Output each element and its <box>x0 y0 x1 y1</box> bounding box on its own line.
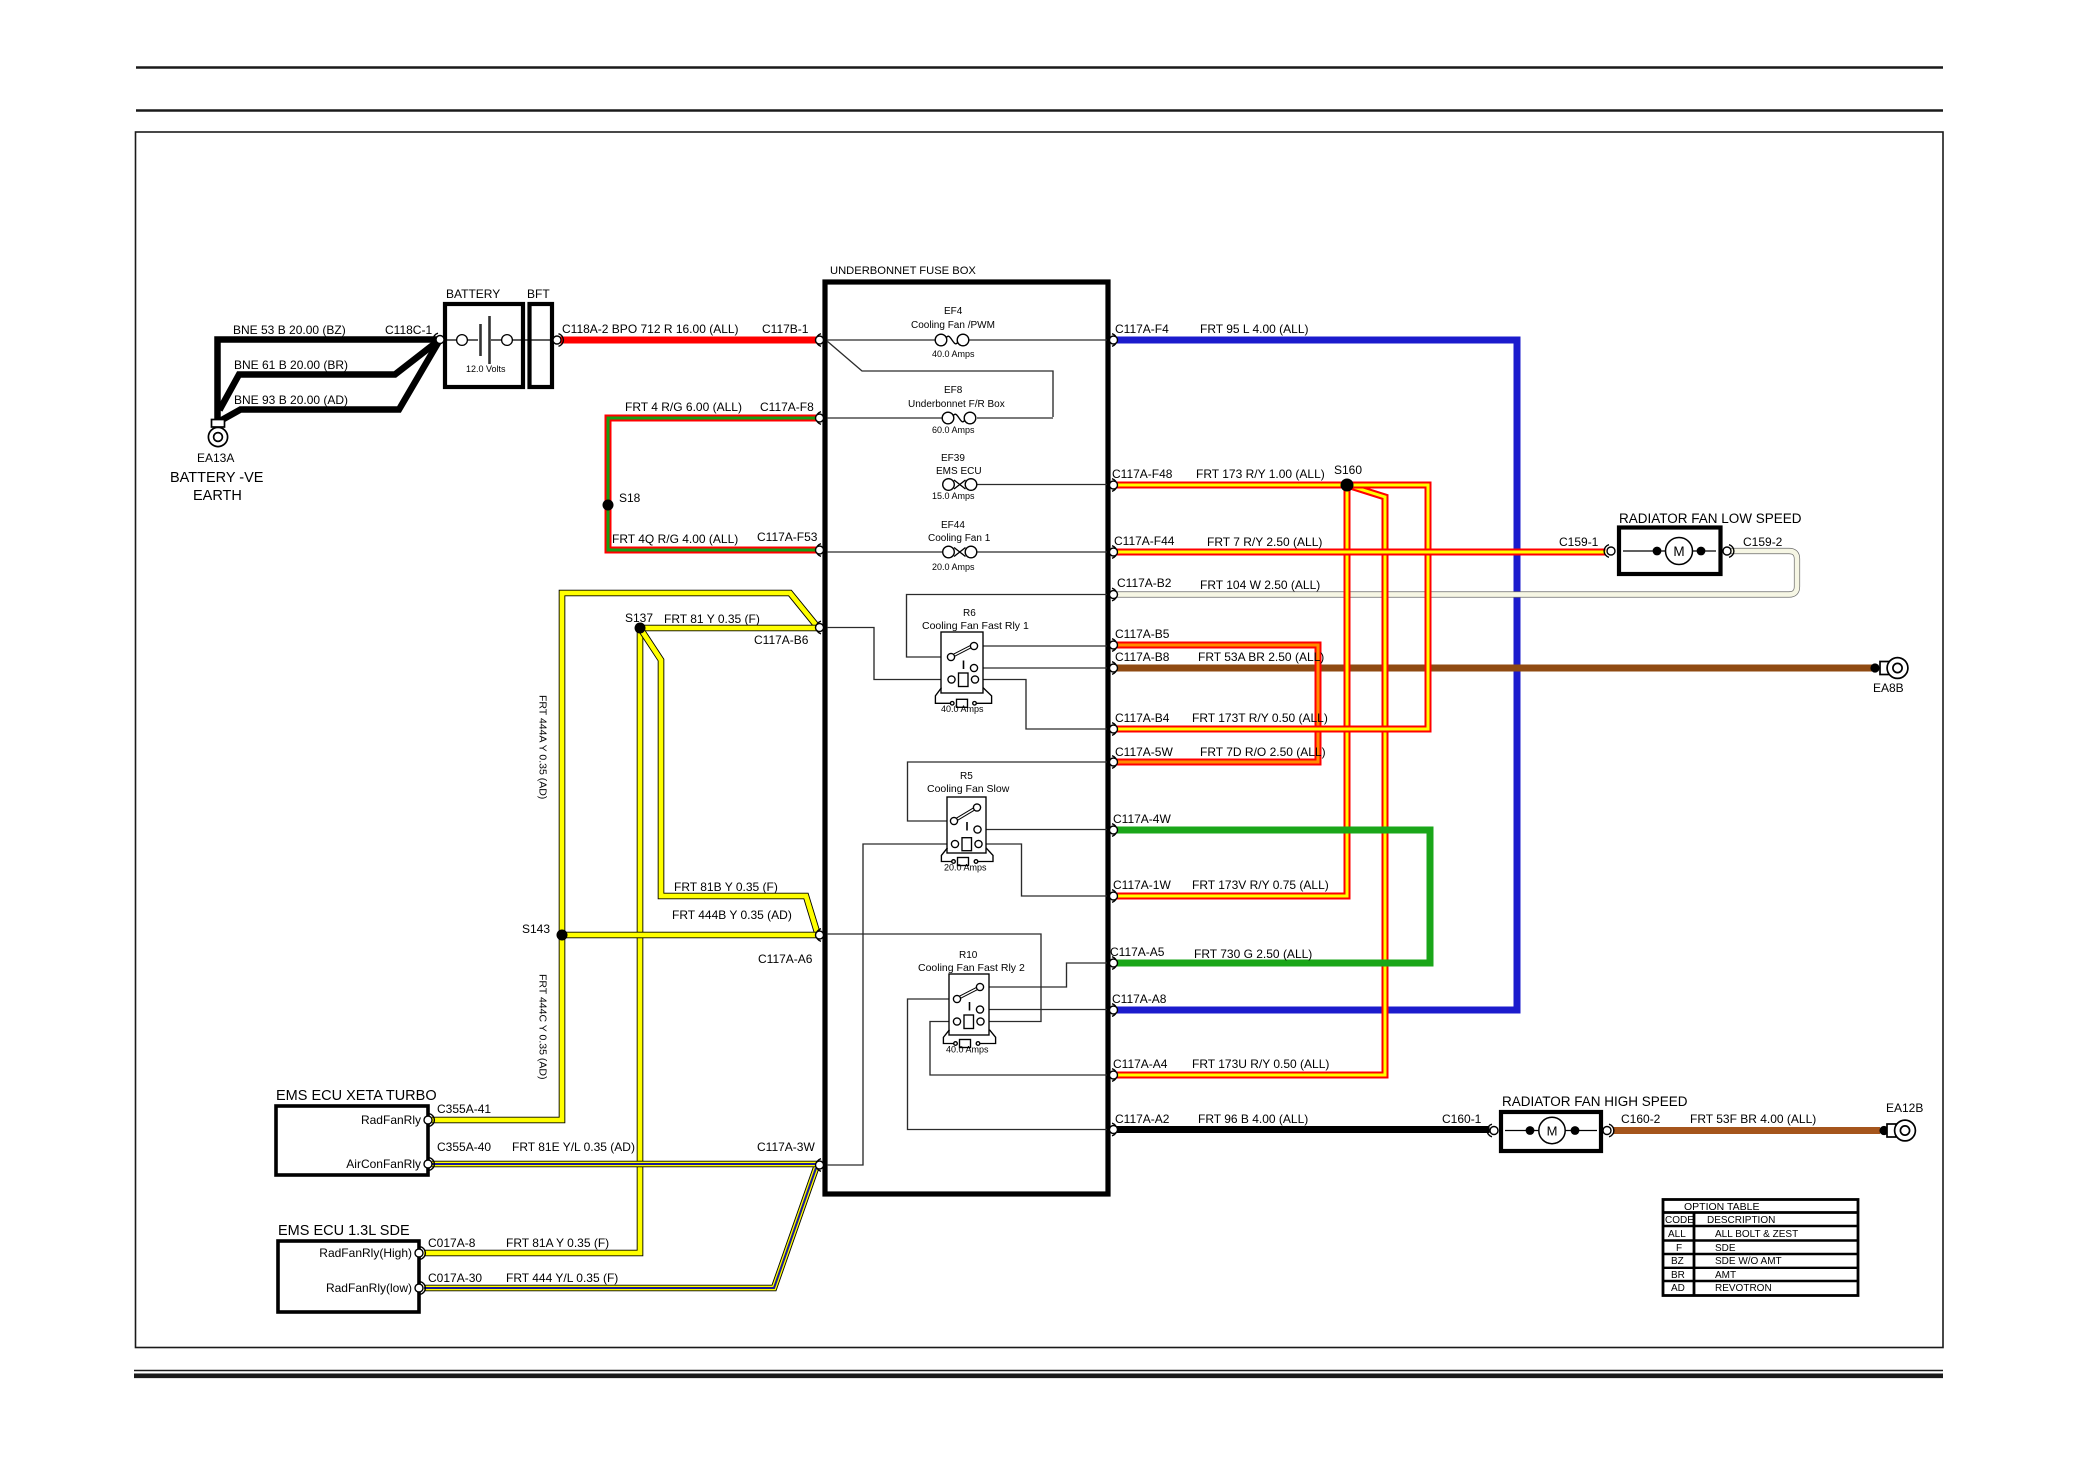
wire R10 coil terminal to C117A-A4 <box>930 1022 1107 1076</box>
connector C117A-B8 <box>1112 662 1117 675</box>
wire EF39 output line <box>977 484 1107 486</box>
svg-text:20.0 Amps: 20.0 Amps <box>932 562 975 572</box>
component EMS ECU 1.3L SDE <box>278 1241 419 1312</box>
svg-text:C117A-B2: C117A-B2 <box>1117 576 1172 590</box>
svg-text:FRT 53F BR 4.00 (ALL): FRT 53F BR 4.00 (ALL) <box>1690 1112 1816 1126</box>
svg-text:C117A-4W: C117A-4W <box>1113 812 1171 826</box>
svg-text:EF4: EF4 <box>944 306 963 317</box>
wire R5 coil feed to C117A-4W <box>981 829 1107 831</box>
svg-text:EA12B: EA12B <box>1886 1101 1923 1115</box>
svg-text:SDE W/O AMT: SDE W/O AMT <box>1715 1256 1782 1267</box>
svg-text:C117A-A8: C117A-A8 <box>1112 992 1167 1006</box>
svg-text:C117A-B6: C117A-B6 <box>754 633 809 647</box>
option table <box>1663 1200 1858 1296</box>
svg-text:RADIATOR FAN LOW SPEED: RADIATOR FAN LOW SPEED <box>1619 511 1802 526</box>
svg-text:R5: R5 <box>960 771 973 782</box>
wire battery negative bundle BNE 53 B 20.00 (BZ) <box>218 340 441 422</box>
wire R5 coil terminal to C117A-3W <box>827 844 952 1165</box>
COMPONENTS_LAYER <box>208 282 1915 1312</box>
svg-text:SDE: SDE <box>1715 1243 1736 1254</box>
wire FRT 173 R/Y 1.00 (ALL) C117A-F48 to S160 <box>1117 482 1347 489</box>
connector C017A-30 <box>421 1282 426 1295</box>
svg-text:RadFanRly: RadFanRly <box>361 1113 421 1127</box>
svg-text:FRT 95 L 4.00 (ALL): FRT 95 L 4.00 (ALL) <box>1200 322 1309 336</box>
svg-text:C117A-F4: C117A-F4 <box>1115 322 1169 336</box>
wire C118A-2 BPO 712 R 16.00 (ALL) red battery feed <box>560 337 817 344</box>
wire EF4 feed line <box>827 339 935 341</box>
fuse EF39 EMS ECU 15A <box>943 479 977 491</box>
svg-text:RadFanRly(low): RadFanRly(low) <box>326 1281 412 1295</box>
svg-text:C160-1: C160-1 <box>1442 1112 1482 1126</box>
wire FRT 173T R/Y 0.50 (ALL) S160 loop to C117A-B4 <box>1117 485 1428 729</box>
svg-text:C117B-1: C117B-1 <box>762 322 809 336</box>
connector C117A-B6 <box>816 621 821 634</box>
wire BNE 61 B 20.00 (BR) <box>220 340 441 411</box>
connector C117A-3W <box>816 1159 821 1172</box>
wire R6 coil terminal to C117A-B6 <box>827 628 948 680</box>
connector C117A-F53 <box>816 544 821 557</box>
PAGE_FURNITURE <box>134 68 1943 1376</box>
svg-text:Cooling Fan /PWM: Cooling Fan /PWM <box>911 320 995 331</box>
wire FRT 7D R/O 2.50 (ALL) loop C117A-B5 to C117A-5W <box>1117 645 1318 762</box>
svg-text:C117A-3W: C117A-3W <box>757 1140 815 1154</box>
svg-text:C117A-A4: C117A-A4 <box>1113 1057 1168 1071</box>
ground EA12B <box>1879 1120 1915 1141</box>
svg-text:C017A-8: C017A-8 <box>428 1236 476 1250</box>
TEXT_LAYER <box>170 265 1923 1295</box>
svg-text:M: M <box>1673 544 1684 559</box>
svg-text:FRT 7 R/Y 2.50 (ALL): FRT 7 R/Y 2.50 (ALL) <box>1207 535 1322 549</box>
relay R6 Cooling Fan Fast Rly 1 <box>935 632 991 707</box>
wire FRT 444C Y 0.35 (AD) C355A-41 up to S143 <box>432 935 562 1120</box>
wire FRT 81 Y 0.35 (F) S137 to C117A-B6 <box>640 625 817 632</box>
wire FRT 95 L 4.00 (ALL) blue loop C117A-F4 to C117A-A8 <box>1117 340 1517 1010</box>
wire R5 coil terminal to C117A-1W <box>982 844 1107 896</box>
component EMS ECU XETA TURBO <box>276 1106 428 1175</box>
svg-text:FRT 4 R/G 6.00 (ALL): FRT 4 R/G 6.00 (ALL) <box>625 400 742 414</box>
connector C117A-1W <box>1112 890 1117 903</box>
svg-text:BNE 93 B 20.00 (AD): BNE 93 B 20.00 (AD) <box>234 393 348 407</box>
wire FRT 53F BR 4.00 (ALL) brown C160-2 to EA12B <box>1613 1127 1880 1134</box>
svg-text:S18: S18 <box>619 491 641 505</box>
svg-text:DESCRIPTION: DESCRIPTION <box>1707 1215 1775 1226</box>
svg-text:C117A-A2: C117A-A2 <box>1115 1112 1170 1126</box>
node S143 splice <box>557 930 568 941</box>
wire FRT 4 R/G 6.00 and FRT 4Q R/G 4.00 red/green <box>608 418 817 550</box>
svg-text:C117A-F53: C117A-F53 <box>757 530 818 544</box>
svg-text:BFT: BFT <box>527 287 550 301</box>
svg-text:F: F <box>1676 1243 1682 1254</box>
svg-text:FRT 4Q R/G 4.00 (ALL): FRT 4Q R/G 4.00 (ALL) <box>612 532 738 546</box>
svg-text:60.0 Amps: 60.0 Amps <box>932 425 975 435</box>
svg-text:EF39: EF39 <box>941 453 965 464</box>
svg-text:S137: S137 <box>625 611 653 625</box>
wire R10 coil terminal from C117A-A6 <box>827 934 1041 1022</box>
wire R10 coil feed to C117A-A8 <box>984 1009 1108 1011</box>
svg-text:ALL: ALL <box>1668 1229 1686 1240</box>
connector C117A-B5 <box>1112 639 1117 652</box>
wire R10 switch input to C117A-A2 <box>908 999 1108 1130</box>
node S18 splice <box>603 500 614 511</box>
connector C355A-40 <box>430 1158 435 1171</box>
svg-text:EMS ECU: EMS ECU <box>936 466 982 477</box>
connector C118A-2 <box>553 334 563 347</box>
svg-text:C355A-40: C355A-40 <box>437 1140 491 1154</box>
svg-text:S143: S143 <box>522 922 550 936</box>
connector C117A-A4 <box>1112 1069 1117 1082</box>
connector C159-2 <box>1723 545 1734 558</box>
connector C117A-A5 <box>1112 957 1117 970</box>
svg-text:BNE 53 B 20.00 (BZ): BNE 53 B 20.00 (BZ) <box>233 323 346 337</box>
svg-text:C117A-A5: C117A-A5 <box>1110 945 1165 959</box>
svg-text:S160: S160 <box>1334 463 1362 477</box>
connector C117A-F48 <box>1112 479 1117 492</box>
wire FRT 444B Y 0.35 (AD) S143 to C117A-A6 <box>562 932 817 939</box>
svg-text:FRT 81A Y 0.35 (F): FRT 81A Y 0.35 (F) <box>506 1236 609 1250</box>
svg-text:C117A-F48: C117A-F48 <box>1112 467 1173 481</box>
connector C159-1 <box>1604 545 1615 558</box>
svg-text:FRT 104 W 2.50 (ALL): FRT 104 W 2.50 (ALL) <box>1200 578 1320 592</box>
svg-text:15.0 Amps: 15.0 Amps <box>932 491 975 501</box>
wire EF8 line <box>827 417 942 419</box>
node S137 splice <box>635 623 646 634</box>
svg-text:C017A-30: C017A-30 <box>428 1271 482 1285</box>
svg-text:EMS ECU XETA TURBO: EMS ECU XETA TURBO <box>276 1088 437 1104</box>
svg-text:M: M <box>1547 1124 1558 1139</box>
svg-text:Underbonnet F/R Box: Underbonnet F/R Box <box>908 399 1005 410</box>
connector C117A-B2 <box>1112 588 1117 601</box>
battery component <box>445 304 523 387</box>
svg-text:AMT: AMT <box>1715 1270 1736 1281</box>
wire R6 coil feed to C117A-B8 <box>978 667 1108 669</box>
wire FRT 104 W 2.50 (ALL) white from C159-2 to C117A-B2 <box>1117 551 1797 595</box>
svg-text:EA8B: EA8B <box>1873 681 1904 695</box>
wire FRT 7 R/Y 2.50 (ALL) C117A-F44 to C159-1 <box>1117 549 1606 556</box>
connector C355A-41 <box>430 1114 435 1127</box>
connector C117A-A6 <box>816 929 821 942</box>
svg-text:C117A-A6: C117A-A6 <box>758 952 813 966</box>
svg-text:FRT 81E Y/L 0.35 (AD): FRT 81E Y/L 0.35 (AD) <box>512 1140 635 1154</box>
ground EA8B <box>1870 658 1908 679</box>
relay R10 Cooling Fan Fast Rly 2 <box>943 974 995 1048</box>
svg-text:UNDERBONNET FUSE BOX: UNDERBONNET FUSE BOX <box>830 265 976 277</box>
node S160 splice <box>1341 479 1354 492</box>
wire FRT 444 Y/L 0.35 (F) from C017A-30 to C117A-3W <box>424 1168 816 1288</box>
connector C117A-F8 <box>816 412 821 425</box>
wire R6 switch output to C117A-B5 <box>978 645 1108 647</box>
svg-text:C118C-1: C118C-1 <box>385 323 432 337</box>
svg-text:FRT 81B Y 0.35 (F): FRT 81B Y 0.35 (F) <box>674 880 778 894</box>
svg-text:BZ: BZ <box>1671 1256 1684 1267</box>
wire R6 coil terminal to C117A-B4 <box>979 680 1108 730</box>
ground EA13A battery -ve earth <box>208 420 227 447</box>
connector C160-2 <box>1603 1124 1614 1137</box>
connector C117A-4W <box>1112 824 1117 837</box>
svg-text:EARTH: EARTH <box>193 488 242 504</box>
svg-text:FRT 7D R/O 2.50 (ALL): FRT 7D R/O 2.50 (ALL) <box>1200 745 1326 759</box>
svg-text:FRT 444C Y 0.35 (AD): FRT 444C Y 0.35 (AD) <box>537 974 549 1079</box>
wire R6 switch input from C117A-B2 <box>907 595 1108 658</box>
svg-text:RadFanRly(High): RadFanRly(High) <box>319 1246 412 1260</box>
connector C117B-1 <box>816 334 821 347</box>
connector C117A-F44 <box>1112 546 1117 559</box>
wire EF44 line <box>827 551 943 553</box>
svg-text:BR: BR <box>1671 1270 1685 1281</box>
svg-text:FRT 444 Y/L 0.35 (F): FRT 444 Y/L 0.35 (F) <box>506 1271 618 1285</box>
svg-text:EMS ECU 1.3L SDE: EMS ECU 1.3L SDE <box>278 1223 410 1239</box>
fuse box edge connectors left <box>816 334 824 1172</box>
wire R10 switch output to C117A-A5 <box>984 963 1107 987</box>
connector C117A-B4 <box>1112 723 1117 736</box>
svg-text:FRT 173V R/Y 0.75 (ALL): FRT 173V R/Y 0.75 (ALL) <box>1192 878 1329 892</box>
svg-text:C355A-41: C355A-41 <box>437 1102 491 1116</box>
svg-text:R10: R10 <box>959 950 978 961</box>
wire FRT 96 B 4.00 (ALL) black C117A-A2 to C160-1 <box>1117 1126 1490 1133</box>
svg-text:EA13A: EA13A <box>197 451 234 465</box>
svg-text:FRT 173 R/Y 1.00 (ALL): FRT 173 R/Y 1.00 (ALL) <box>1196 467 1325 481</box>
connector C118C-1 <box>433 333 444 346</box>
svg-text:FRT 81 Y 0.35 (F): FRT 81 Y 0.35 (F) <box>664 612 760 626</box>
svg-text:C117A-F44: C117A-F44 <box>1114 534 1175 548</box>
svg-text:C117A-1W: C117A-1W <box>1113 878 1171 892</box>
svg-text:Cooling Fan Slow: Cooling Fan Slow <box>927 783 1010 795</box>
wire FRT 173V R/Y 0.75 (ALL) S160 down to C117A-1W <box>1117 485 1347 896</box>
svg-text:C117A-B5: C117A-B5 <box>1115 627 1170 641</box>
svg-text:CODE: CODE <box>1665 1215 1694 1226</box>
wire BNE 93 B 20.00 (AD) <box>220 340 440 422</box>
connector C160-1 <box>1487 1124 1498 1137</box>
svg-text:R6: R6 <box>963 608 976 619</box>
connector C117A-A2 <box>1112 1123 1117 1136</box>
fuse EF8 Underbonnet F/R Box 60A <box>942 412 976 424</box>
svg-text:12.0 Volts: 12.0 Volts <box>466 364 506 374</box>
svg-text:C117A-B8: C117A-B8 <box>1115 650 1170 664</box>
svg-text:FRT 173U R/Y 0.50 (ALL): FRT 173U R/Y 0.50 (ALL) <box>1192 1057 1329 1071</box>
svg-text:FRT 444B Y 0.35 (AD): FRT 444B Y 0.35 (AD) <box>672 908 792 922</box>
svg-text:Cooling Fan Fast Rly 1: Cooling Fan Fast Rly 1 <box>922 620 1029 632</box>
svg-text:Cooling Fan Fast Rly 2: Cooling Fan Fast Rly 2 <box>918 962 1025 974</box>
svg-text:C117A-5W: C117A-5W <box>1115 745 1173 759</box>
svg-text:C117A-B4: C117A-B4 <box>1115 711 1170 725</box>
svg-text:Cooling Fan 1: Cooling Fan 1 <box>928 533 991 544</box>
wire R5 switch input from C117A-5W <box>908 762 1108 821</box>
svg-text:C159-2: C159-2 <box>1743 535 1783 549</box>
svg-text:EF44: EF44 <box>941 520 965 531</box>
wire FRT 173U R/Y 0.50 (ALL) S160 down to C117A-A4 <box>1117 485 1385 1075</box>
connector C117A-F4 <box>1112 334 1117 347</box>
fuse box edge connectors right <box>1110 334 1118 1136</box>
wire FRT 81E Y/L 0.35 (AD) from C355A-40 to C117A-3W <box>432 1161 817 1168</box>
wire FRT 81A Y 0.35 (F) from C017A-8 up to S137 <box>424 628 640 1253</box>
svg-text:OPTION TABLE: OPTION TABLE <box>1684 1201 1759 1213</box>
svg-text:C159-1: C159-1 <box>1559 535 1599 549</box>
svg-text:AD: AD <box>1671 1283 1685 1294</box>
motor radiator fan low speed <box>1619 528 1721 575</box>
svg-text:20.0 Amps: 20.0 Amps <box>944 863 987 873</box>
wire battery feed to EF8 <box>827 341 1053 417</box>
svg-text:FRT 730 G 2.50 (ALL): FRT 730 G 2.50 (ALL) <box>1194 947 1312 961</box>
svg-text:C160-2: C160-2 <box>1621 1112 1661 1126</box>
svg-text:FRT 53A BR 2.50 (ALL): FRT 53A BR 2.50 (ALL) <box>1198 650 1324 664</box>
connector C117A-A8 <box>1112 1004 1117 1017</box>
svg-text:40.0 Amps: 40.0 Amps <box>932 349 975 359</box>
WIRES_LAYER <box>218 340 1881 1289</box>
connector C017A-8 <box>421 1247 426 1260</box>
component BFT fuse link <box>525 304 557 387</box>
svg-text:40.0 Amps: 40.0 Amps <box>946 1045 989 1055</box>
relay R5 Cooling Fan Slow <box>941 797 993 866</box>
wire FRT 53A BR 2.50 (ALL) brown C117A-B8 to EA8B <box>1117 665 1876 672</box>
svg-text:ALL BOLT & ZEST: ALL BOLT & ZEST <box>1715 1229 1798 1240</box>
underbonnet fuse box enclosure <box>825 282 1108 1194</box>
svg-text:C118A-2 BPO 712 R 16.00 (AL: C118A-2 BPO 712 R 16.00 (ALL) <box>562 322 739 336</box>
motor radiator fan high speed <box>1501 1112 1601 1151</box>
fuse EF4 Cooling Fan /PWM 40A <box>935 334 969 346</box>
svg-text:REVOTRON: REVOTRON <box>1715 1283 1772 1294</box>
fuse EF44 Cooling Fan 1 20A <box>943 546 977 558</box>
connector C117A-5W <box>1112 756 1117 769</box>
svg-text:BATTERY -VE: BATTERY -VE <box>170 470 264 486</box>
wire FRT 81B Y 0.35 (F) S137 down to C117A-A6 <box>640 628 817 932</box>
svg-text:40.0 Amps: 40.0 Amps <box>941 704 984 714</box>
wire FRT 444A Y 0.35 (AD) yellow vertical with top link to C117A-B6 <box>562 593 818 935</box>
svg-text:FRT 96 B 4.00 (ALL): FRT 96 B 4.00 (ALL) <box>1198 1112 1308 1126</box>
svg-text:AirConFanRly: AirConFanRly <box>346 1157 421 1171</box>
wire FRT 730 G 2.50 (ALL) green loop C117A-4W to C117A-A5 <box>1117 830 1430 963</box>
svg-text:C117A-F8: C117A-F8 <box>760 400 814 414</box>
svg-text:FRT 444A Y 0.35 (AD): FRT 444A Y 0.35 (AD) <box>537 695 549 799</box>
svg-text:BNE 61 B 20.00 (BR): BNE 61 B 20.00 (BR) <box>234 358 348 372</box>
svg-text:FRT 173T R/Y 0.50 (ALL): FRT 173T R/Y 0.50 (ALL) <box>1192 711 1328 725</box>
fuse box internal thin wires <box>827 340 1107 1165</box>
svg-text:EF8: EF8 <box>944 385 963 396</box>
svg-text:RADIATOR FAN HIGH SPEED: RADIATOR FAN HIGH SPEED <box>1502 1094 1688 1109</box>
svg-text:BATTERY: BATTERY <box>446 287 500 301</box>
